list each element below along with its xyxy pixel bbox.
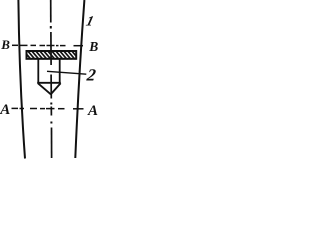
centerline dot	[50, 122, 52, 124]
hatched rectangle (crosshead body)	[23, 50, 83, 60]
tube right wall	[59, 60, 61, 84]
svg-text:A: A	[0, 102, 10, 118]
right wall line (item 1)	[75, 0, 84, 158]
centerline dash bottom	[51, 128, 53, 159]
funnel left slope	[38, 83, 51, 94]
tube left wall	[37, 60, 39, 84]
section line A-A dashes	[12, 107, 84, 109]
centerline dot	[50, 103, 52, 105]
leader line to label 2	[47, 71, 86, 74]
svg-text:B: B	[88, 39, 98, 54]
centerline dash through B-B and rectangle	[50, 32, 52, 65]
svg-text:A: A	[87, 103, 98, 119]
section line B-B dashes	[12, 44, 83, 46]
left wall line	[18, 0, 25, 159]
centerline dash through A-A	[50, 107, 52, 116]
funnel right slope	[51, 83, 61, 94]
centerline dash top	[50, 0, 52, 23]
centerline dot	[50, 26, 52, 29]
funnel top bar	[37, 82, 61, 84]
centerline dash through funnel	[50, 75, 52, 99]
svg-text:B: B	[0, 37, 10, 52]
